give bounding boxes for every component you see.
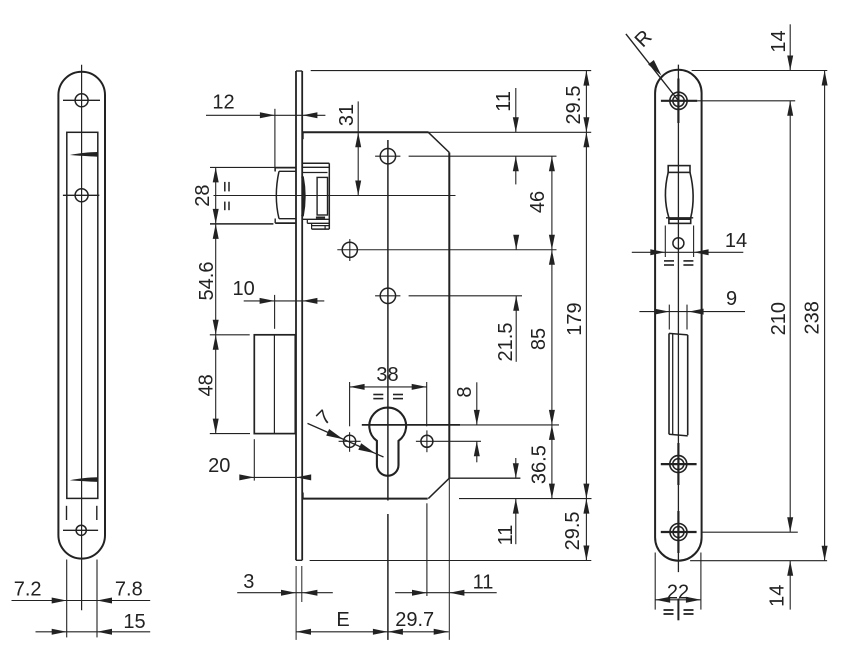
left view bottom screw hole — [76, 525, 86, 535]
left view vertical centerline — [81, 65, 83, 611]
svg-text:7.8: 7.8 — [115, 579, 143, 601]
dimension 7.2 / 7.8 — [12, 600, 151, 602]
left view top screw hole — [75, 94, 88, 107]
dimension 12 — [206, 114, 325, 116]
case left edge stub below top — [302, 132, 304, 139]
hole A (top, on centerline) — [380, 149, 395, 164]
extension lines for width dims 7.2/7.8/15 — [66, 560, 68, 638]
dimension 21.5 — [515, 238, 517, 250]
svg-text:15: 15 — [123, 611, 145, 633]
left view latch tip edge-on (top sliver) — [70, 152, 98, 157]
right view latch bolt — [668, 166, 690, 173]
svg-text:14: 14 — [767, 585, 789, 607]
small hole below latch — [673, 238, 684, 249]
case left edge stub above bottom — [302, 493, 304, 499]
extension from plate bottom — [690, 560, 827, 562]
lock case bottom edge — [302, 498, 428, 500]
svg-text:29.5: 29.5 — [562, 511, 584, 550]
dimension 3 (faceplate thickness) — [237, 592, 333, 594]
dimension 179 — [583, 132, 589, 147]
dimension 8 — [476, 382, 478, 425]
svg-text:E: E — [336, 609, 349, 631]
dimension 20 — [253, 439, 255, 480]
extension line from faceplate bottom — [310, 560, 592, 562]
svg-text:46: 46 — [527, 191, 549, 213]
dimension 14 (latch width) — [632, 251, 744, 253]
dimension 31 — [357, 101, 359, 195]
left view deadbolt tip edge-on (bottom sliver) — [70, 477, 98, 482]
svg-text:38: 38 — [376, 364, 398, 386]
svg-text:11: 11 — [473, 571, 494, 593]
dimension 11 bottom — [395, 592, 497, 594]
dimension 54.6 — [213, 224, 219, 239]
left view lower cutout stubs — [66, 506, 68, 520]
extension from plate top — [692, 70, 828, 72]
hole B (left) — [342, 242, 357, 257]
latch follower axis line — [214, 195, 456, 197]
dimension 85 — [549, 250, 555, 265]
lock case top edge — [302, 131, 591, 133]
faceplate edge extension stubs below — [295, 566, 297, 640]
svg-text:21.5: 21.5 — [495, 323, 517, 362]
middle view faceplate (thin strip, section) — [295, 71, 297, 560]
fixing hole right of cylinder — [421, 435, 433, 447]
svg-text:54.6: 54.6 — [196, 262, 218, 301]
euro cylinder profile hole — [369, 408, 406, 476]
svg-text:22: 22 — [667, 582, 689, 604]
case bottom break diagonal — [428, 478, 449, 498]
hole column centerline — [387, 140, 389, 501]
right view bottom screw hole — [670, 524, 687, 541]
right view top screw hole — [670, 92, 687, 109]
extension lines latch width — [664, 226, 666, 258]
left view: strike/face plate outer outline — [58, 72, 105, 559]
right view centerline — [677, 65, 679, 572]
dimension 11 top right — [515, 88, 517, 132]
dimension 210 — [789, 101, 791, 533]
left view middle screw hole — [75, 189, 88, 202]
right view middle screw hole — [670, 456, 687, 473]
left view inner cutout rectangle — [67, 132, 98, 498]
svg-text:7.2: 7.2 — [14, 579, 42, 601]
svg-text:238: 238 — [801, 301, 823, 334]
svg-text:28: 28 — [192, 184, 214, 206]
dimension 48 — [213, 335, 219, 350]
latch bolt head (protruding) — [275, 167, 295, 169]
svg-text:8: 8 — [454, 386, 476, 397]
svg-text:3: 3 — [243, 571, 254, 593]
svg-text:179: 179 — [564, 302, 586, 335]
cylinder axis line — [362, 424, 460, 426]
hole C (on centerline) — [380, 288, 395, 303]
svg-text:10: 10 — [232, 278, 254, 300]
dimension 29.5 bottom — [583, 499, 589, 514]
extension line from faceplate top — [311, 70, 592, 72]
centerline tick below plate — [677, 599, 679, 621]
dimension 36.5 — [551, 425, 553, 499]
fixing hole left of cylinder — [344, 435, 356, 447]
latch bolt curved face behind plate — [303, 177, 305, 217]
svg-text:11: 11 — [493, 91, 515, 112]
svg-text:14: 14 — [725, 230, 747, 252]
dimension 28 with equality marks — [210, 166, 275, 168]
deadbolt (middle view) — [254, 335, 295, 434]
dimension 15 — [36, 631, 151, 633]
dimension 22 with equality marks — [654, 553, 656, 610]
svg-text:11: 11 — [495, 525, 517, 546]
svg-text:9: 9 — [726, 288, 737, 310]
svg-text:R: R — [631, 26, 657, 52]
svg-text:29.7: 29.7 — [395, 609, 434, 631]
case bottom right corner line — [449, 477, 520, 479]
svg-text:36.5: 36.5 — [529, 445, 551, 484]
svg-text:7: 7 — [313, 406, 336, 429]
dimension 46 — [551, 156, 553, 425]
svg-text:85: 85 — [528, 328, 550, 350]
dimension 14 bottom right — [789, 561, 791, 610]
deadbolt slot — [668, 333, 670, 434]
svg-text:20: 20 — [208, 455, 230, 477]
svg-text:31: 31 — [336, 104, 358, 126]
svg-text:48: 48 — [196, 374, 218, 396]
svg-text:29.5: 29.5 — [563, 86, 585, 125]
dimension 11 bottom right — [515, 458, 517, 478]
case top break diagonal — [428, 132, 449, 152]
svg-text:14: 14 — [768, 30, 790, 52]
lock case right edge (broken) — [448, 153, 450, 479]
dimension 29.5 top — [585, 71, 587, 561]
dimension E and 29.7 — [296, 631, 449, 633]
svg-text:210: 210 — [768, 302, 790, 335]
dimension 14 top right — [789, 24, 791, 70]
dimension 238 — [824, 71, 826, 561]
right view faceplate outline — [655, 70, 702, 561]
equality marks under latch — [664, 260, 674, 262]
svg-text:12: 12 — [212, 92, 234, 114]
extension line latch face for dim 12 — [274, 109, 276, 172]
latch follower housing — [303, 162, 330, 164]
